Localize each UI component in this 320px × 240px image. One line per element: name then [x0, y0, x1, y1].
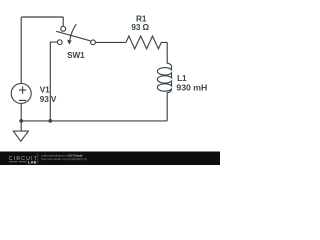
svg-text:LAB: LAB: [28, 160, 37, 164]
CircuitLab logo: [9, 153, 88, 164]
node junction dot middle: [48, 119, 52, 123]
inductor L1 with right rail: [157, 42, 171, 121]
wire middle vertical (left throw to bottom rail): [50, 42, 57, 121]
svg-text:SW1: SW1: [67, 51, 85, 60]
switch SW1: [57, 40, 62, 45]
svg-text:V1: V1: [40, 86, 50, 95]
node junction dot left: [19, 119, 23, 123]
wire V1 bottom: [20, 103, 22, 121]
footer bar: [0, 152, 220, 166]
svg-text:http://circuitlab.com/c/j2tkg5: http://circuitlab.com/c/j2tkg5rrhyfy: [41, 157, 87, 161]
svg-text:93 V: 93 V: [40, 95, 57, 104]
switch arrow head: [67, 40, 72, 45]
svg-text:R1: R1: [136, 14, 147, 23]
wire top rail: [21, 16, 63, 18]
resistor R1: [126, 36, 167, 49]
wire bottom rail: [21, 120, 167, 122]
voltage source V1: [11, 83, 31, 103]
footer divider: [37, 153, 39, 163]
svg-text:93 Ω: 93 Ω: [131, 23, 149, 32]
wire switch right to resistor: [95, 41, 126, 43]
wire stub to switch top terminal: [62, 17, 64, 26]
svg-text:930 mH: 930 mH: [176, 82, 207, 92]
wire left rail (top of V1 to top rail): [20, 17, 22, 83]
ground: [20, 121, 22, 131]
